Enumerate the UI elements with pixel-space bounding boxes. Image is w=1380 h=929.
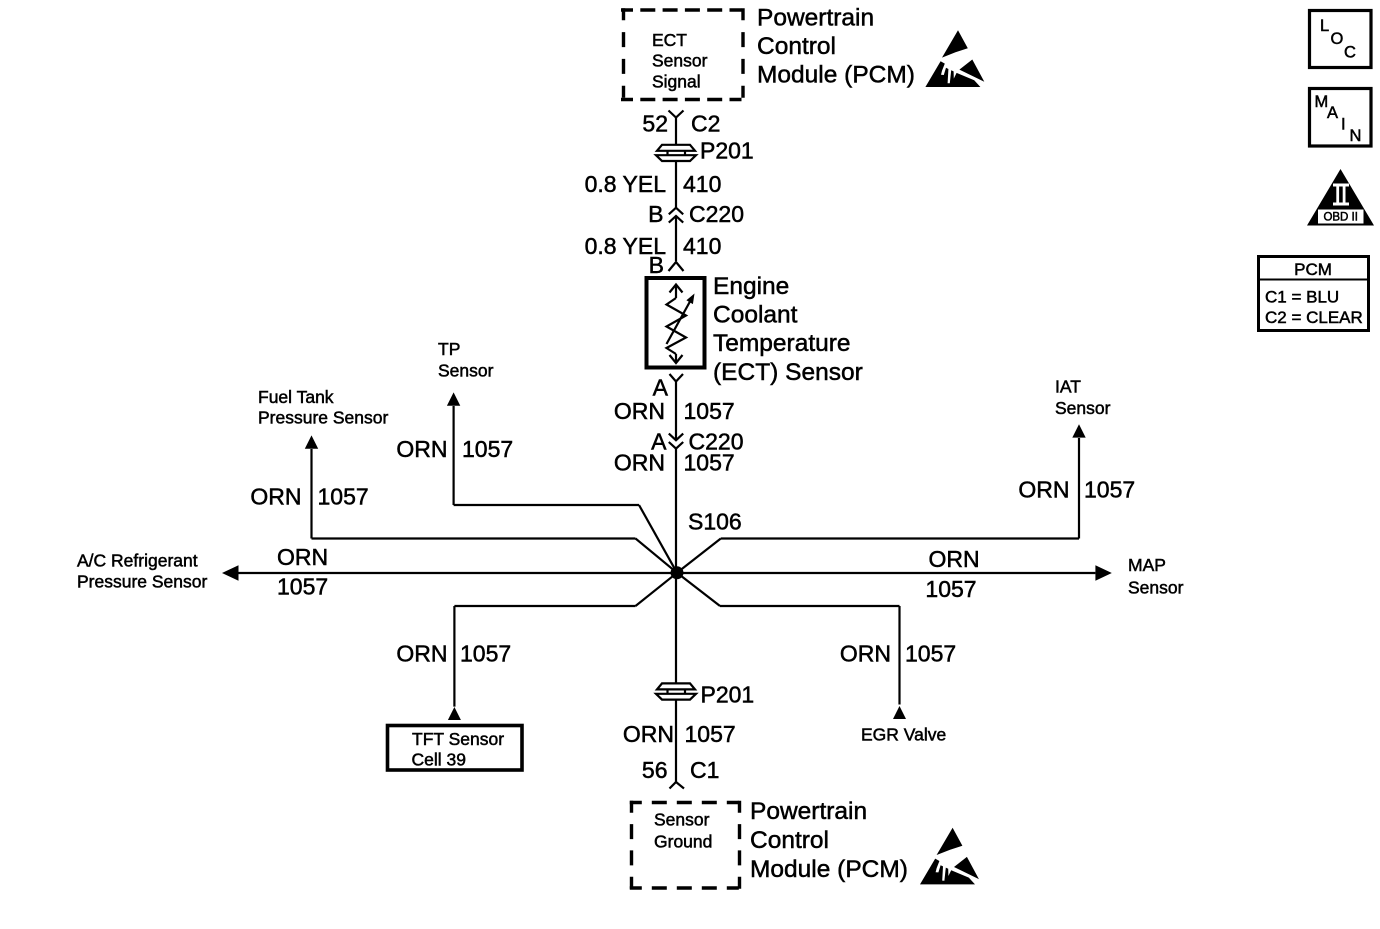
svg-text:ORN: ORN — [623, 721, 674, 747]
svg-text:1057: 1057 — [685, 721, 736, 747]
svg-text:1057: 1057 — [460, 641, 511, 667]
OBD II symbol — [1307, 169, 1374, 226]
wire to fuel tank pressure sensor — [305, 435, 677, 572]
svg-text:Control: Control — [757, 33, 836, 60]
ESD symbol bottom — [920, 828, 979, 885]
svg-text:Module (PCM): Module (PCM) — [750, 856, 908, 883]
LOC reference box — [1310, 11, 1372, 68]
svg-text:ORN: ORN — [396, 641, 447, 667]
svg-text:52: 52 — [642, 111, 668, 137]
svg-text:S106: S106 — [688, 509, 742, 535]
svg-text:C2 = CLEAR: C2 = CLEAR — [1265, 308, 1363, 327]
svg-text:ECT: ECT — [652, 30, 687, 50]
svg-text:Sensor: Sensor — [1055, 398, 1111, 418]
svg-text:OBD II: OBD II — [1323, 212, 1358, 224]
svg-text:TFT Sensor: TFT Sensor — [412, 729, 504, 749]
splice S106 — [671, 566, 684, 579]
svg-text:Temperature: Temperature — [713, 330, 851, 357]
wire 410 upper segment — [675, 161, 677, 208]
svg-text:1057: 1057 — [684, 450, 735, 476]
svg-text:P201: P201 — [701, 682, 755, 708]
pass-through grommet P201 bottom — [656, 683, 696, 699]
ECT sensor box — [647, 278, 705, 368]
svg-text:Pressure Sensor: Pressure Sensor — [258, 408, 389, 428]
svg-text:C1 = BLU: C1 = BLU — [1265, 288, 1339, 307]
svg-text:0.8 YEL: 0.8 YEL — [585, 171, 667, 197]
svg-text:1057: 1057 — [684, 398, 735, 424]
svg-text:ORN: ORN — [1018, 477, 1069, 503]
wire 1057 P201 to C1 — [675, 700, 677, 782]
svg-text:Ground: Ground — [654, 832, 712, 852]
svg-text:Powertrain: Powertrain — [750, 798, 867, 825]
svg-text:Pressure Sensor: Pressure Sensor — [77, 572, 208, 592]
svg-text:ORN: ORN — [840, 641, 891, 667]
wire to A/C refrigerant pressure sensor — [222, 565, 677, 580]
svg-text:Fuel Tank: Fuel Tank — [258, 387, 334, 407]
svg-text:L: L — [1320, 17, 1329, 35]
MAIN reference box — [1310, 89, 1372, 147]
svg-text:N: N — [1350, 127, 1362, 145]
svg-text:O: O — [1331, 30, 1344, 48]
wire to IAT sensor — [677, 424, 1086, 573]
label Powertrain Control Module (PCM) top — [757, 5, 915, 89]
svg-text:TP: TP — [438, 339, 460, 359]
svg-text:Sensor: Sensor — [654, 810, 710, 830]
label A/C Refrigerant Pressure Sensor — [77, 551, 208, 592]
connector C220 pin B chevrons — [669, 208, 683, 223]
label MAP Sensor — [1128, 555, 1184, 598]
pass-through grommet P201 top — [656, 145, 696, 161]
wire 1057 C220 to splice S106 — [675, 449, 677, 684]
svg-text:B: B — [649, 252, 664, 278]
svg-text:1057: 1057 — [277, 574, 328, 600]
svg-text:C: C — [1344, 44, 1356, 62]
wire segment C2 to P201 — [675, 118, 677, 145]
svg-text:P201: P201 — [700, 138, 754, 164]
svg-text:ORN: ORN — [614, 398, 665, 424]
svg-text:Cell 39: Cell 39 — [412, 750, 466, 770]
connector C2 fork at PCM — [669, 111, 684, 118]
wire 1057 segment ECT to C220 — [675, 382, 677, 441]
wire to TFT sensor — [448, 573, 677, 720]
wire to TP sensor — [447, 392, 677, 572]
connector C220 pin A chevrons — [669, 434, 683, 449]
svg-text:56: 56 — [642, 757, 668, 783]
svg-text:C2: C2 — [691, 111, 720, 137]
label Fuel Tank Pressure Sensor — [258, 387, 389, 428]
svg-text:IAT: IAT — [1055, 376, 1081, 396]
svg-text:1057: 1057 — [905, 641, 956, 667]
label Powertrain Control Module (PCM) bottom — [750, 798, 908, 883]
PCM Sensor Ground dashed box — [630, 801, 741, 890]
svg-text:Engine: Engine — [713, 273, 789, 300]
wire to EGR valve — [677, 573, 906, 719]
wire 410 lower segment — [675, 216, 677, 261]
svg-text:Sensor: Sensor — [652, 51, 708, 71]
svg-text:Signal: Signal — [652, 71, 701, 91]
label Engine Coolant Temperature (ECT) Sensor — [713, 273, 863, 386]
connector C1 fork at PCM bottom — [670, 782, 685, 789]
svg-text:ORN: ORN — [277, 544, 328, 570]
PCM ECT Sensor Signal dashed box — [621, 8, 745, 101]
svg-text:C1: C1 — [690, 757, 719, 783]
svg-text:ORN: ORN — [928, 546, 979, 572]
svg-text:1057: 1057 — [318, 484, 369, 510]
svg-text:Control: Control — [750, 827, 829, 854]
svg-text:Sensor: Sensor — [1128, 578, 1184, 598]
svg-text:ORN: ORN — [250, 484, 301, 510]
svg-text:A: A — [653, 375, 669, 401]
label TP Sensor — [438, 339, 494, 381]
svg-text:1057: 1057 — [462, 436, 513, 462]
svg-text:A: A — [1327, 104, 1338, 122]
PCM connector legend box — [1259, 257, 1369, 331]
svg-text:A/C Refrigerant: A/C Refrigerant — [77, 551, 198, 571]
svg-text:MAP: MAP — [1128, 555, 1166, 575]
svg-text:Coolant: Coolant — [713, 302, 798, 329]
thermistor symbol — [667, 285, 695, 364]
svg-text:PCM: PCM — [1294, 260, 1332, 279]
TFT Sensor Cell 39 box — [388, 726, 523, 771]
svg-text:ORN: ORN — [614, 450, 665, 476]
svg-text:Module (PCM): Module (PCM) — [757, 62, 915, 89]
wire to MAP sensor — [677, 565, 1112, 580]
svg-text:Sensor: Sensor — [438, 361, 494, 381]
svg-text:410: 410 — [683, 233, 721, 259]
ESD symbol top — [925, 30, 984, 87]
svg-text:C220: C220 — [689, 201, 744, 227]
pin B fork at ECT sensor — [669, 262, 684, 271]
svg-text:1057: 1057 — [1084, 477, 1135, 503]
svg-text:I: I — [1341, 116, 1346, 134]
svg-text:1057: 1057 — [925, 576, 976, 602]
svg-text:ORN: ORN — [396, 436, 447, 462]
svg-text:Powertrain: Powertrain — [757, 5, 874, 32]
svg-text:(ECT) Sensor: (ECT) Sensor — [713, 359, 863, 386]
pin A fork at ECT sensor — [670, 374, 684, 382]
label IAT Sensor — [1055, 376, 1111, 418]
svg-text:410: 410 — [683, 171, 721, 197]
svg-text:B: B — [648, 201, 663, 227]
svg-text:EGR Valve: EGR Valve — [861, 725, 946, 745]
